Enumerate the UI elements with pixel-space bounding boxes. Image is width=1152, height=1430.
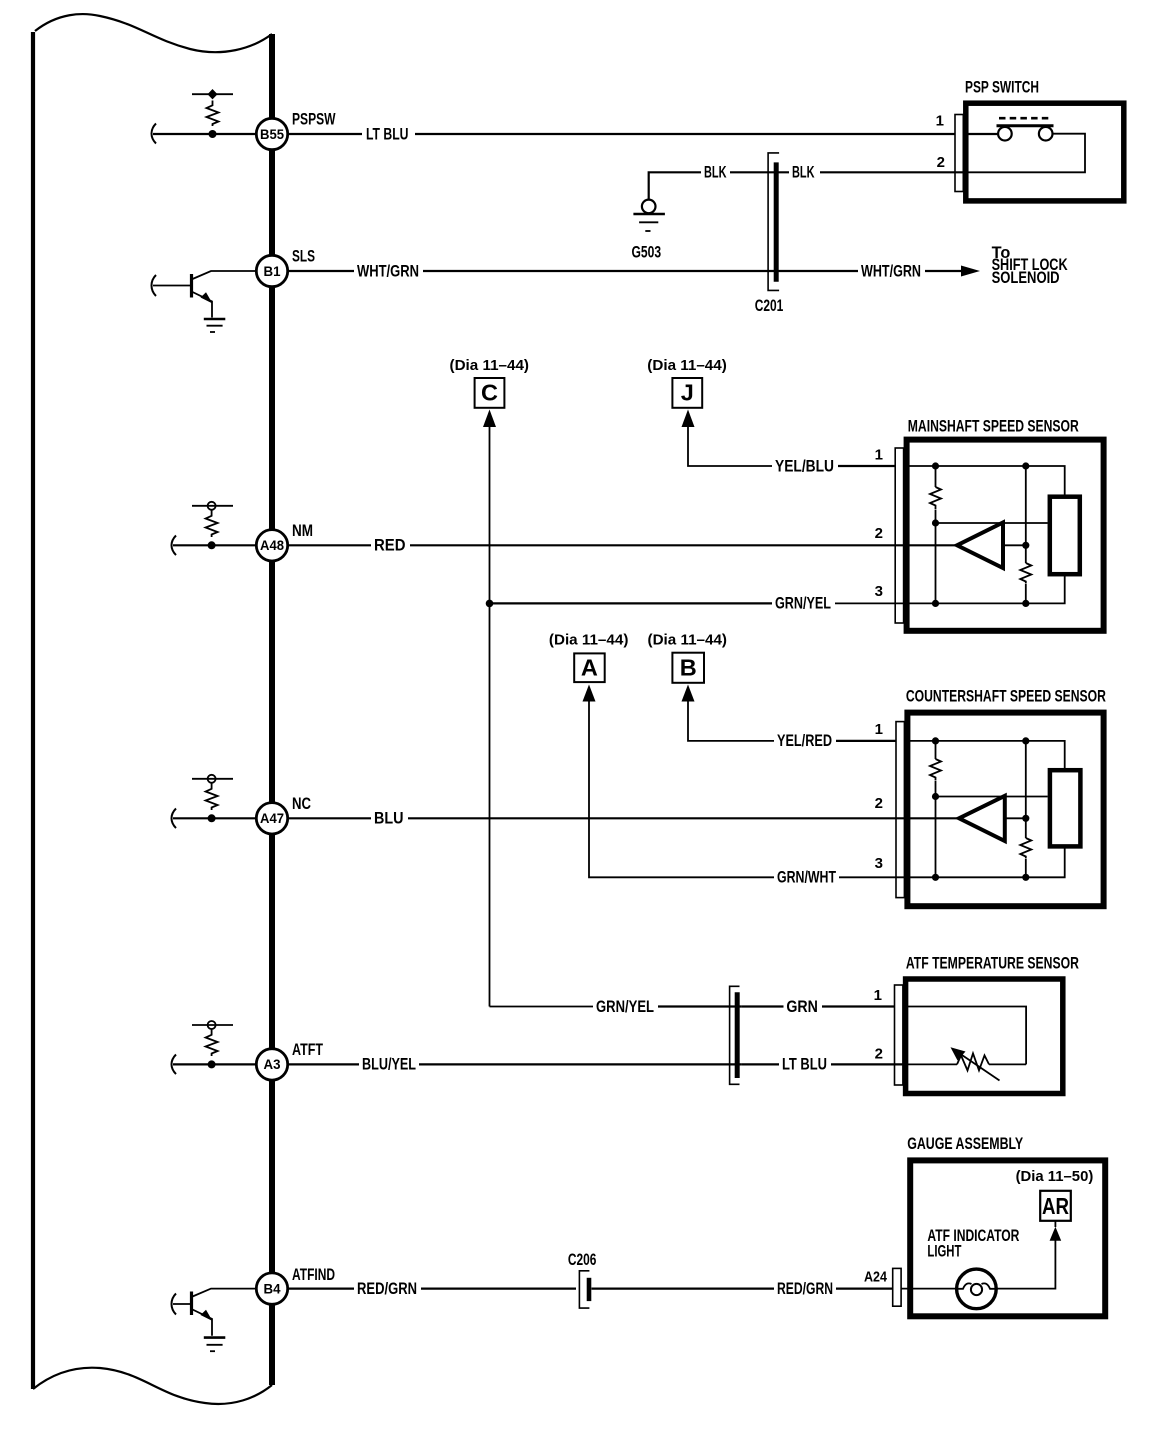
svg-text:(Dia 11–44): (Dia 11–44) bbox=[647, 357, 727, 374]
wire GRN to pin1 bbox=[822, 1005, 903, 1007]
svg-text:A3: A3 bbox=[264, 1056, 281, 1072]
connector bracket countershaft bbox=[896, 722, 904, 898]
node dot GRN/YEL tap bbox=[486, 600, 494, 608]
node dot pin1 left bbox=[932, 462, 939, 469]
connector pin A3 bbox=[256, 1049, 287, 1080]
wire BLK middle bbox=[730, 171, 789, 173]
wire PSP internal pin2 link bbox=[963, 134, 1085, 173]
wire GRN/YEL from C stem corner bbox=[490, 1006, 594, 1008]
connector C201 bar bbox=[774, 162, 779, 281]
wire A47 internal bbox=[173, 817, 256, 819]
transistor Q-B4 bbox=[190, 1292, 193, 1316]
wire module left edge bbox=[31, 32, 35, 1389]
op-amp countershaft bbox=[959, 796, 1005, 841]
node dot pin3 right bbox=[1022, 600, 1029, 607]
svg-text:RED: RED bbox=[374, 537, 406, 555]
svg-text:(Dia 11–50): (Dia 11–50) bbox=[1016, 1168, 1094, 1185]
MAINSHAFT bbox=[288, 357, 1104, 1007]
connector bracket atf mid bbox=[730, 986, 740, 1084]
svg-text:(Dia 11–44): (Dia 11–44) bbox=[549, 632, 629, 649]
svg-text:1: 1 bbox=[875, 447, 883, 464]
svg-text:YEL/RED: YEL/RED bbox=[777, 732, 832, 750]
sensor element rectangle mainshaft bbox=[1050, 497, 1080, 575]
wire power bar A3 bbox=[192, 1024, 233, 1026]
node dot pin3 left bbox=[932, 600, 939, 607]
wire RED/GRN to gauge bbox=[836, 1287, 894, 1289]
svg-text:GAUGE ASSEMBLY: GAUGE ASSEMBLY bbox=[907, 1135, 1023, 1153]
wire YEL/RED to sensor pin1 bbox=[836, 740, 904, 742]
resistor mainshaft left bbox=[930, 487, 941, 509]
svg-text:A47: A47 bbox=[260, 810, 284, 826]
svg-text:RED/GRN: RED/GRN bbox=[357, 1280, 417, 1298]
svg-text:BLK: BLK bbox=[792, 164, 815, 182]
svg-text:B: B bbox=[680, 655, 697, 681]
connector C206 bar bbox=[587, 1278, 592, 1301]
wire power bar A48 bbox=[192, 505, 233, 507]
connector bracket PSP bbox=[955, 115, 963, 192]
wire B stem to YEL/RED bbox=[688, 700, 774, 741]
svg-text:3: 3 bbox=[875, 583, 883, 600]
resistor countershaft left bbox=[930, 759, 941, 780]
wire base B1 bbox=[153, 285, 192, 287]
wire right inner upper bbox=[1025, 741, 1027, 838]
svg-text:C: C bbox=[481, 380, 498, 406]
wire right inner upper bbox=[1025, 466, 1027, 563]
svg-text:GRN/YEL: GRN/YEL bbox=[596, 998, 654, 1016]
power node circle A3 bbox=[208, 1021, 216, 1029]
wire bracket left end A47 bbox=[172, 809, 177, 829]
wire BLU A47 row bbox=[288, 817, 371, 819]
resistor mainshaft right bbox=[1020, 563, 1031, 584]
svg-text:GRN/WHT: GRN/WHT bbox=[777, 869, 836, 887]
svg-text:1: 1 bbox=[874, 987, 882, 1004]
wire power bar A47 bbox=[192, 778, 233, 780]
wire op-amp output bbox=[1003, 544, 1026, 546]
ATF bbox=[288, 955, 1079, 1094]
connector bar atf mid bbox=[735, 992, 740, 1078]
wire pin1 internal bbox=[904, 741, 1065, 770]
transistor Q-B1 bbox=[190, 274, 193, 298]
wire GRN/YEL from C stem bbox=[490, 602, 773, 604]
wire BLU/YEL A3 row bbox=[288, 1063, 359, 1065]
wire RED/GRN B4 row bbox=[288, 1287, 354, 1289]
countershaft sensor box bbox=[907, 713, 1103, 907]
wire left inner upper bbox=[935, 741, 937, 759]
wire A3 internal bbox=[173, 1063, 256, 1065]
node junction dot A3 pullup bbox=[208, 1060, 216, 1068]
node junction dot A48 pullup bbox=[208, 541, 216, 549]
svg-text:C201: C201 bbox=[755, 297, 784, 315]
svg-text:2: 2 bbox=[937, 154, 945, 171]
thermistor zigzag bbox=[957, 1053, 989, 1070]
arrow into A bbox=[583, 685, 596, 702]
wire to shift lock arrow bbox=[925, 270, 963, 272]
row A47 NC pull-up resistor bbox=[172, 775, 312, 834]
svg-text:2: 2 bbox=[875, 525, 883, 542]
svg-text:ATFIND: ATFIND bbox=[292, 1266, 335, 1284]
node junction dot A47 pullup bbox=[208, 814, 216, 822]
svg-text:B55: B55 bbox=[260, 126, 284, 142]
wire connector to LT BLU label bbox=[741, 1063, 779, 1065]
node dot pin3 right bbox=[1022, 874, 1029, 881]
wire GRN/YEL to connector bbox=[658, 1005, 741, 1007]
svg-text:WHT/GRN: WHT/GRN bbox=[861, 262, 921, 280]
svg-text:SLS: SLS bbox=[292, 248, 315, 266]
svg-text:ATFT: ATFT bbox=[292, 1041, 323, 1059]
svg-text:LIGHT: LIGHT bbox=[927, 1243, 961, 1261]
gauge assembly box bbox=[910, 1160, 1105, 1316]
svg-text:C206: C206 bbox=[568, 1251, 597, 1269]
connector pin B55 bbox=[256, 118, 287, 149]
svg-text:1: 1 bbox=[875, 721, 883, 738]
svg-text:1: 1 bbox=[936, 113, 944, 130]
wire module right edge band bbox=[269, 34, 275, 1385]
wire WHT/GRN B1 to label bbox=[288, 270, 354, 272]
resistor R-A3 pull-up bbox=[206, 1029, 218, 1056]
arrow into B bbox=[682, 685, 695, 702]
connector B box bbox=[672, 653, 704, 683]
connector C201 bracket bbox=[768, 153, 779, 291]
wire A48 internal bbox=[173, 544, 256, 546]
svg-text:A24: A24 bbox=[864, 1269, 888, 1286]
wire connector to GRN label bbox=[741, 1005, 783, 1007]
svg-text:BLK: BLK bbox=[704, 164, 727, 182]
svg-text:ATF TEMPERATURE SENSOR: ATF TEMPERATURE SENSOR bbox=[906, 955, 1079, 973]
svg-text:LT BLU: LT BLU bbox=[366, 125, 409, 143]
wire BLK PSP to C201 bbox=[820, 171, 963, 173]
wire YEL/BLU to sensor pin1 bbox=[838, 465, 903, 467]
connector C206 bracket bbox=[579, 1271, 589, 1308]
svg-text:(Dia 11–44): (Dia 11–44) bbox=[648, 632, 728, 649]
arrow into J bbox=[682, 410, 695, 428]
ground B4 bbox=[204, 1336, 226, 1339]
resistor R-A47 pull-up bbox=[206, 783, 218, 810]
ground G503 circle bbox=[642, 200, 656, 214]
wire power bar B55 bbox=[192, 93, 233, 95]
wire feedback line bbox=[936, 522, 1048, 524]
power node diamond B55 bbox=[208, 89, 218, 99]
atf sensor box bbox=[906, 979, 1063, 1094]
wire bracket left end B4 bbox=[172, 1294, 177, 1315]
connector AR box bbox=[1040, 1191, 1071, 1221]
mainshaft sensor box bbox=[907, 440, 1104, 631]
node dot feedback bbox=[932, 519, 939, 526]
connector C box bbox=[475, 378, 505, 408]
thermistor arrow bbox=[958, 1052, 1000, 1081]
wire bracket left end A3 bbox=[172, 1055, 177, 1075]
svg-text:NC: NC bbox=[292, 795, 311, 813]
node dot output bbox=[1022, 815, 1029, 822]
connector pin A48 bbox=[256, 530, 287, 561]
wire J stem to YEL/BLU bbox=[688, 425, 772, 466]
svg-text:LT BLU: LT BLU bbox=[782, 1056, 827, 1074]
connector J box bbox=[672, 378, 702, 408]
wire C stem bbox=[489, 425, 491, 1007]
row B1 SLS transistor bbox=[152, 248, 316, 333]
connector bracket gauge bbox=[893, 1268, 901, 1306]
wire WHT/GRN through C201 bbox=[423, 270, 858, 272]
wire bracket left end B55 bbox=[152, 124, 157, 144]
row B4 ATFIND transistor bbox=[172, 1266, 336, 1351]
wire pin1 internal bbox=[903, 1007, 1026, 1065]
svg-text:B4: B4 bbox=[264, 1280, 281, 1296]
wire RED A48 row bbox=[288, 544, 371, 546]
arrow into AR bbox=[1050, 1227, 1062, 1241]
connector pin B1 bbox=[256, 255, 287, 286]
wire pin1 internal bbox=[903, 466, 1065, 497]
resistor countershaft right bbox=[1020, 838, 1031, 859]
ground G503 bars bbox=[633, 213, 665, 216]
row A3 ATFT pull-up resistor bbox=[172, 1021, 324, 1080]
wire pin2 internal to thermistor bbox=[903, 1063, 957, 1065]
GAUGE bbox=[288, 1135, 1105, 1316]
svg-text:BLU/YEL: BLU/YEL bbox=[362, 1056, 416, 1074]
wire RED/GRN after C206 bbox=[592, 1287, 775, 1289]
svg-text:COUNTERSHAFT SPEED SENSOR: COUNTERSHAFT SPEED SENSOR bbox=[906, 688, 1106, 706]
wire GRN/YEL to pin3 bbox=[835, 574, 1065, 603]
svg-text:3: 3 bbox=[875, 855, 883, 872]
wire LT BLU to pin2 bbox=[831, 1063, 903, 1065]
svg-text:(Dia 11–44): (Dia 11–44) bbox=[450, 357, 530, 374]
node dot pin3 left bbox=[932, 874, 939, 881]
lamp ATF indicator light bbox=[957, 1269, 997, 1309]
svg-text:GRN: GRN bbox=[786, 998, 818, 1016]
wire RED to apex bbox=[410, 544, 956, 546]
svg-text:SOLENOID: SOLENOID bbox=[992, 269, 1060, 287]
node dot output bbox=[1022, 542, 1029, 549]
node junction dot B55 pullup bbox=[209, 130, 217, 138]
wire bracket left end A48 bbox=[172, 536, 177, 556]
wire AR stem bbox=[996, 1239, 1055, 1289]
svg-text:WHT/GRN: WHT/GRN bbox=[357, 262, 419, 280]
wire RED/GRN to C206 bbox=[421, 1287, 576, 1289]
switch contact right bbox=[1039, 127, 1053, 141]
wire AR stem top bbox=[1054, 1221, 1056, 1227]
arrow into C bbox=[483, 410, 496, 428]
wire B55 internal bbox=[153, 133, 256, 135]
svg-text:B1: B1 bbox=[264, 263, 281, 279]
wire LT BLU B55 to PSP pin1 bbox=[288, 133, 362, 135]
wire LT BLU continued bbox=[415, 133, 998, 135]
op-amp mainshaft bbox=[957, 523, 1003, 569]
switch blade bar bbox=[997, 124, 1054, 127]
row B55 PSPSW pull-up resistor bbox=[152, 89, 336, 150]
node dot pin1 right bbox=[1022, 737, 1029, 744]
svg-text:PSP SWITCH: PSP SWITCH bbox=[965, 79, 1039, 97]
wire BLK to G503 bbox=[649, 172, 701, 199]
COUNTERSHAFT bbox=[288, 632, 1106, 907]
connector pin B4 bbox=[256, 1273, 287, 1304]
wire module bottom torn edge bbox=[33, 1368, 272, 1404]
arrow to shift lock bbox=[961, 266, 980, 277]
svg-text:J: J bbox=[681, 380, 694, 406]
node dot pin1 right bbox=[1022, 462, 1029, 469]
svg-text:NM: NM bbox=[292, 522, 313, 540]
svg-text:GRN/YEL: GRN/YEL bbox=[775, 595, 831, 613]
resistor R-A48 pull-up bbox=[206, 510, 218, 537]
svg-text:PSPSW: PSPSW bbox=[292, 111, 336, 129]
wire feedback line bbox=[936, 796, 1048, 798]
wire thermistor to corner bbox=[989, 1063, 1026, 1065]
ROWS bbox=[152, 89, 336, 1351]
svg-text:MAINSHAFT SPEED SENSOR: MAINSHAFT SPEED SENSOR bbox=[908, 418, 1079, 436]
svg-text:AR: AR bbox=[1042, 1193, 1069, 1219]
svg-text:G503: G503 bbox=[632, 244, 662, 262]
svg-text:YEL/BLU: YEL/BLU bbox=[775, 457, 834, 475]
svg-text:A: A bbox=[581, 655, 598, 681]
svg-text:BLU: BLU bbox=[374, 810, 404, 828]
power node circle A47 bbox=[208, 775, 216, 783]
svg-text:2: 2 bbox=[875, 795, 883, 812]
svg-text:2: 2 bbox=[875, 1046, 883, 1063]
wire bracket left end B1 bbox=[152, 275, 157, 296]
connector A box bbox=[574, 653, 605, 682]
svg-text:RED/GRN: RED/GRN bbox=[777, 1280, 833, 1298]
wire op-amp output bbox=[1005, 817, 1026, 819]
wire BLU/YEL to connector bbox=[419, 1063, 741, 1065]
ground B1 bbox=[204, 318, 226, 321]
svg-text:A48: A48 bbox=[260, 537, 284, 553]
resistor R-B55 pull-up bbox=[207, 101, 219, 127]
node dot pin1 left bbox=[932, 737, 939, 744]
wire BLU to apex bbox=[408, 817, 958, 819]
wire left inner (with resistor) bbox=[935, 466, 937, 487]
wire gauge pin to lamp bbox=[901, 1288, 957, 1290]
power node circle A48 bbox=[208, 502, 216, 510]
row A48 NM pull-up resistor bbox=[172, 502, 314, 561]
wire A stem to GRN/WHT bbox=[589, 700, 774, 878]
wire GRN/WHT to pin3 bbox=[839, 846, 1065, 877]
connector bracket mainshaft bbox=[895, 448, 903, 623]
connector bracket atf sensor bbox=[895, 985, 903, 1085]
sensor element rectangle countershaft bbox=[1050, 770, 1081, 846]
switch blade dashed bbox=[999, 117, 1051, 120]
wire module top torn edge bbox=[35, 14, 272, 52]
wire base B4 bbox=[173, 1303, 192, 1305]
connector pin A47 bbox=[256, 803, 287, 834]
node dot feedback bbox=[932, 793, 939, 800]
PSP switch box bbox=[966, 103, 1124, 201]
PSP bbox=[288, 79, 1124, 316]
switch contact left bbox=[998, 127, 1012, 141]
MODULE-BAND bbox=[33, 14, 272, 1404]
